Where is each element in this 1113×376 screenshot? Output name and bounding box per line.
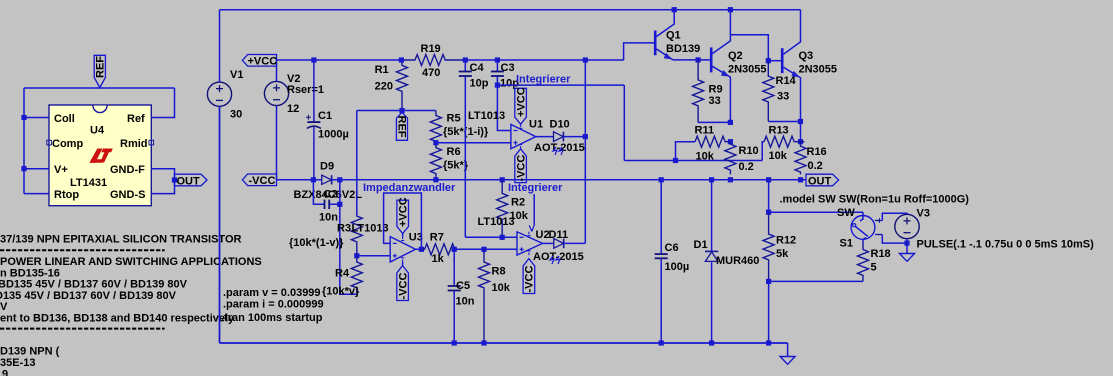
U4 pin square Comp bbox=[47, 140, 52, 145]
wire GND-F pin bbox=[151, 169, 174, 194]
svg-text:5: 5 bbox=[871, 261, 877, 273]
flag -VCC at U3 bbox=[397, 266, 410, 301]
svg-text:0.2: 0.2 bbox=[808, 160, 823, 172]
svg-text:POWER LINEAR AND SWITCHING APP: POWER LINEAR AND SWITCHING APPLICATIONS bbox=[0, 256, 262, 268]
junction R8 bottom rail bbox=[481, 340, 486, 345]
wire R5R6 junction to U1 plus input bbox=[436, 142, 511, 144]
resistor R4 bbox=[351, 256, 362, 294]
svg-text:V3: V3 bbox=[917, 208, 930, 220]
wire R12 from rail bbox=[768, 180, 770, 212]
resistor R13 bbox=[764, 136, 804, 147]
svg-text:C4: C4 bbox=[470, 62, 485, 74]
junction R12 bottom rail bbox=[766, 340, 771, 345]
resistor R18 bbox=[858, 243, 869, 281]
flag REF above U4 bbox=[94, 55, 106, 87]
junction Q1 collector rail bbox=[672, 7, 677, 12]
svg-text:R14: R14 bbox=[776, 75, 797, 87]
svg-text:.model SW SW(Ron=1u Roff=1000G: .model SW SW(Ron=1u Roff=1000G) bbox=[780, 193, 970, 205]
wire feedback down bbox=[623, 85, 625, 160]
svg-text:+VCC: +VCC bbox=[248, 56, 278, 68]
wire top rail bbox=[220, 9, 801, 11]
junction C5 top bbox=[452, 247, 457, 252]
svg-text:BD135 45V / BD137 60V / BD139: BD135 45V / BD137 60V / BD139 80V bbox=[0, 279, 188, 291]
svg-text:Integrierer: Integrierer bbox=[516, 74, 571, 86]
svg-text:R3: R3 bbox=[337, 223, 351, 235]
svg-text:R7: R7 bbox=[430, 231, 444, 243]
svg-text:Integrierer: Integrierer bbox=[508, 182, 563, 194]
wire C2 junction down to R4 return bbox=[340, 204, 357, 294]
wire V1 top to rail bbox=[219, 10, 221, 82]
svg-text:D11: D11 bbox=[549, 229, 569, 241]
svg-text:{10k*(1-v)}: {10k*(1-v)} bbox=[289, 237, 344, 249]
wire Q1 base feed bbox=[624, 43, 654, 60]
svg-text:V1: V1 bbox=[230, 69, 243, 81]
svg-text:220: 220 bbox=[375, 80, 393, 92]
svg-text:R13: R13 bbox=[769, 124, 789, 136]
flag +VCC at U3 bbox=[397, 197, 410, 233]
svg-text:470: 470 bbox=[422, 67, 440, 79]
IC U4 LT1431 body bbox=[49, 105, 151, 206]
wire SW node to S1 bbox=[769, 211, 863, 213]
svg-text:2N3055: 2N3055 bbox=[799, 63, 838, 75]
svg-text:D139 NPN (: D139 NPN ( bbox=[0, 346, 60, 358]
svg-text:9: 9 bbox=[2, 369, 8, 376]
capacitor C2 bbox=[325, 200, 330, 209]
svg-text:C3: C3 bbox=[501, 62, 515, 74]
D11 model squiggle bbox=[550, 256, 560, 264]
svg-text:R4: R4 bbox=[335, 268, 350, 280]
svg-text:LT1013: LT1013 bbox=[478, 216, 515, 228]
wire REF node horizontal bbox=[357, 110, 436, 112]
wire bottom rail overlay bbox=[220, 342, 788, 344]
svg-text:-VCC: -VCC bbox=[249, 175, 276, 187]
resistor R11 bbox=[695, 136, 730, 147]
svg-text:Rmid: Rmid bbox=[120, 138, 148, 150]
svg-text:U2: U2 bbox=[536, 229, 550, 241]
svg-text:Q2: Q2 bbox=[728, 50, 743, 62]
junction Q1 emitter R9 Q2 base bbox=[696, 57, 701, 62]
svg-text:GND-F: GND-F bbox=[110, 164, 145, 176]
flag -VCC at U1 bbox=[515, 149, 528, 183]
wire V1 vertical overlay bbox=[219, 106, 221, 343]
junction U4 Coll bbox=[21, 115, 26, 120]
flag OUT right bbox=[801, 174, 839, 187]
junction R12 top rail bbox=[766, 177, 771, 182]
U4 pin square Rmid bbox=[149, 140, 154, 145]
svg-text:PULSE(.1 -.1 0.75u 0 0 5mS 10m: PULSE(.1 -.1 0.75u 0 0 5mS 10mS) bbox=[917, 239, 1095, 251]
svg-text:Rtop: Rtop bbox=[54, 189, 79, 201]
svg-text:35E-13: 35E-13 bbox=[0, 357, 35, 369]
wire output rail left bbox=[277, 179, 314, 181]
transistor Q3 bbox=[782, 10, 800, 122]
svg-text:Impedanzwandler: Impedanzwandler bbox=[363, 182, 456, 194]
svg-text:-VCC: -VCC bbox=[524, 266, 536, 293]
flag REF at R1 bbox=[396, 112, 408, 140]
svg-text:OUT: OUT bbox=[808, 175, 832, 187]
wire V1 bottom long vertical bbox=[219, 106, 221, 343]
junction D9 cathode bbox=[337, 177, 342, 182]
junction OUT flag U4 bbox=[172, 177, 177, 182]
junction feedback R11 bbox=[673, 158, 678, 163]
svg-text:-VCC: -VCC bbox=[515, 155, 527, 182]
svg-text:R9: R9 bbox=[709, 83, 723, 95]
resistor R9 bbox=[693, 60, 704, 123]
wire R13 left corner bbox=[762, 142, 764, 161]
flag OUT at U4 bbox=[175, 174, 208, 187]
wire V3 bottom bbox=[906, 239, 908, 243]
svg-text:1000µ: 1000µ bbox=[318, 128, 349, 140]
svg-text:R5: R5 bbox=[447, 113, 461, 125]
diode D10 bbox=[554, 132, 586, 142]
wire R14 bottom to Q3 emitter line bbox=[768, 121, 800, 123]
wire C4 line to U2 input bbox=[465, 236, 517, 238]
junction R11 R10 bbox=[728, 139, 733, 144]
wire U3 power top stub bbox=[402, 234, 404, 237]
svg-text:U1: U1 bbox=[529, 119, 543, 131]
junction U2 minus input bbox=[500, 235, 505, 240]
svg-text:.tran 100ms startup: .tran 100ms startup bbox=[221, 312, 323, 324]
wire Rtop pin bbox=[24, 193, 49, 195]
capacitor C1 bbox=[306, 60, 321, 180]
junction C3 bottom feedback node bbox=[495, 83, 500, 88]
text block dashed line 2 bbox=[0, 328, 165, 330]
svg-text:C5: C5 bbox=[456, 280, 470, 292]
wire Q3 base bbox=[768, 60, 782, 62]
wire V2 top to +VCC bbox=[276, 60, 278, 81]
wire feedback top horizontal bbox=[497, 84, 624, 86]
wire bottom rail bbox=[220, 342, 788, 344]
wire C2 left branch bbox=[313, 180, 324, 205]
ground V3 bbox=[900, 243, 915, 261]
svg-text:5k: 5k bbox=[776, 248, 789, 260]
svg-text:R8: R8 bbox=[492, 266, 506, 278]
ground main bbox=[780, 343, 795, 364]
svg-text:C1: C1 bbox=[318, 110, 332, 122]
resistor R1 bbox=[397, 60, 408, 111]
resistor R5 bbox=[430, 111, 441, 143]
svg-text:D9: D9 bbox=[320, 160, 334, 172]
svg-text:R19: R19 bbox=[421, 43, 441, 55]
junction R6 bottom bbox=[433, 177, 438, 182]
junction Q3 base R14 bbox=[766, 58, 771, 63]
svg-text:LT1013: LT1013 bbox=[468, 110, 505, 122]
svg-text:30: 30 bbox=[230, 109, 242, 121]
wire U1 output bbox=[536, 136, 554, 138]
svg-text:D10: D10 bbox=[550, 118, 570, 130]
junction D1 top bbox=[709, 177, 714, 182]
svg-text:R18: R18 bbox=[871, 248, 891, 260]
wire S1 control bottom to V3 bbox=[882, 235, 907, 244]
wire R9 bottom to R10 top bbox=[698, 121, 730, 123]
svg-text:D135 45V / BD137 60V / BD139 8: D135 45V / BD137 60V / BD139 80V bbox=[0, 290, 177, 302]
resistor R2 bbox=[497, 180, 508, 237]
junction D10 output bbox=[583, 134, 588, 139]
wire Q1 emitter to node bbox=[673, 59, 711, 61]
diode D11 bbox=[554, 239, 586, 249]
svg-text:Ref: Ref bbox=[127, 113, 145, 125]
svg-text:ent to BD136, BD138 and BD140: ent to BD136, BD138 and BD140 respective… bbox=[0, 312, 235, 324]
wire C2 right branch bbox=[329, 180, 339, 205]
resistor R6 bbox=[430, 143, 441, 180]
wire U3 power bottom stub bbox=[402, 262, 404, 266]
junction R12 SW node bbox=[766, 210, 771, 215]
resistor R19 bbox=[401, 55, 466, 66]
junction C1 top bbox=[311, 57, 316, 62]
wire U4 top bbox=[24, 87, 175, 89]
wire V+ pin bbox=[24, 168, 49, 170]
D10 model squiggle bbox=[553, 147, 563, 155]
svg-text:.param v = 0.03999: .param v = 0.03999 bbox=[223, 287, 321, 299]
svg-text:V+: V+ bbox=[54, 164, 68, 176]
svg-text:BD139: BD139 bbox=[666, 43, 700, 55]
transistor Q1 bbox=[655, 10, 674, 60]
svg-text:BD137/139 NPN EPITAXIAL SILICO: BD137/139 NPN EPITAXIAL SILICON TRANSIST… bbox=[0, 234, 242, 246]
diode D1 bbox=[705, 180, 718, 343]
junction R12 R18 return bbox=[766, 279, 771, 284]
svg-text:-VCC: -VCC bbox=[397, 273, 409, 300]
resistor R7 bbox=[421, 244, 484, 255]
svg-text:R16: R16 bbox=[807, 146, 827, 158]
junction R9 R10 Q2 emitter bbox=[728, 120, 733, 125]
svg-text:GND-S: GND-S bbox=[110, 189, 145, 201]
wire C3 bottom to U1 minus input bbox=[497, 85, 511, 130]
svg-text:D1: D1 bbox=[694, 239, 708, 251]
junction C6 top bbox=[659, 177, 664, 182]
svg-text:2N3055: 2N3055 bbox=[728, 63, 767, 75]
svg-text:.param i = 0.000999: .param i = 0.000999 bbox=[223, 299, 324, 311]
svg-text:U4: U4 bbox=[90, 125, 105, 137]
junction R3 R4 bbox=[354, 253, 359, 258]
svg-text:33: 33 bbox=[777, 91, 789, 103]
svg-text:n BD135-16: n BD135-16 bbox=[0, 267, 60, 279]
voltage source V3 bbox=[895, 214, 919, 238]
svg-text:V: V bbox=[0, 301, 8, 313]
wire U2 power top bbox=[529, 194, 534, 231]
wire R7 node to U2 plus input bbox=[454, 248, 517, 250]
svg-text:AOT-2015: AOT-2015 bbox=[534, 142, 585, 154]
wire REF node down left bbox=[356, 111, 358, 180]
svg-text:10n: 10n bbox=[456, 295, 475, 307]
svg-text:Comp: Comp bbox=[52, 138, 83, 150]
svg-text:C2: C2 bbox=[324, 189, 338, 201]
junction R1 top bbox=[399, 57, 404, 62]
svg-text:R2: R2 bbox=[511, 197, 525, 209]
junction C4 top bbox=[463, 57, 468, 62]
svg-text:10k: 10k bbox=[696, 150, 715, 162]
resistor R16 bbox=[795, 142, 806, 175]
op-amp U2 bbox=[517, 232, 543, 255]
wire S1 control top to V3 bbox=[882, 213, 907, 220]
junction U4 V+ bbox=[21, 166, 26, 171]
junction R8 top bbox=[481, 247, 486, 252]
flag +VCC at U1 bbox=[515, 87, 528, 124]
junction U3 output bbox=[419, 247, 424, 252]
resistor R10 bbox=[725, 142, 736, 175]
svg-text:12: 12 bbox=[287, 103, 299, 115]
wire D10 node vertical bbox=[584, 60, 586, 243]
op-amp U1 bbox=[511, 124, 536, 148]
resistor R8 bbox=[479, 249, 490, 342]
svg-text:Rser=1: Rser=1 bbox=[287, 84, 324, 96]
svg-text:SW: SW bbox=[837, 207, 855, 219]
svg-text:R6: R6 bbox=[447, 146, 461, 158]
wire Coll pin bbox=[24, 117, 49, 119]
svg-text:Q1: Q1 bbox=[666, 29, 681, 41]
junction R13 R16 bbox=[798, 139, 803, 144]
flag -VCC at U2 bbox=[523, 259, 536, 294]
junction rail x585 bbox=[583, 57, 588, 62]
diode D9 bbox=[313, 175, 339, 184]
voltage source V2 bbox=[264, 81, 288, 105]
resistor R14 bbox=[763, 61, 774, 122]
svg-text:{10k*v}: {10k*v} bbox=[322, 286, 360, 298]
capacitor C5 bbox=[448, 249, 461, 343]
wire feedback lower horizontal bbox=[624, 160, 762, 162]
wire rail C4 to C3 bbox=[465, 59, 497, 61]
svg-text:10k: 10k bbox=[492, 282, 511, 294]
resistor R12 bbox=[763, 212, 774, 281]
svg-text:+VCC: +VCC bbox=[398, 197, 410, 227]
junction D1 bottom rail bbox=[709, 340, 714, 345]
voltage source V1 bbox=[207, 82, 231, 106]
svg-text:R11: R11 bbox=[695, 124, 715, 136]
capacitor C3 bbox=[491, 60, 504, 85]
switch S1 bbox=[851, 212, 882, 243]
svg-text:1k: 1k bbox=[432, 253, 445, 265]
wire R12 to bottom rail bbox=[768, 281, 770, 343]
svg-text:S1: S1 bbox=[840, 238, 853, 250]
junction C2 right bbox=[337, 202, 342, 207]
svg-text:Coll: Coll bbox=[54, 113, 75, 125]
wire R3R4 junction to U3 plus input bbox=[357, 255, 390, 257]
wire V2 bottom to -VCC bbox=[276, 106, 278, 180]
svg-text:R1: R1 bbox=[375, 64, 389, 76]
capacitor C6 bbox=[655, 180, 668, 343]
junction R5 R6 bbox=[433, 140, 438, 145]
junction REF node bbox=[399, 108, 404, 113]
wire output rail middle bbox=[340, 179, 801, 181]
junction D9 anode bbox=[311, 177, 316, 182]
wire U4 left vertical bbox=[23, 88, 25, 194]
wire Q3 emitter to R16 bbox=[800, 122, 802, 142]
junction C5 bottom rail bbox=[452, 340, 457, 345]
wire Ref pin bbox=[151, 88, 174, 118]
svg-text:OUT: OUT bbox=[177, 175, 201, 187]
svg-text:33: 33 bbox=[709, 95, 721, 107]
svg-text:R12: R12 bbox=[776, 234, 796, 246]
junction Q2 collector rail bbox=[728, 7, 733, 12]
svg-text:REF: REF bbox=[396, 116, 408, 138]
wire REF node crossing to R3 bbox=[356, 180, 358, 215]
flag -VCC at V2 bbox=[242, 174, 276, 187]
svg-text:REF: REF bbox=[95, 56, 107, 78]
svg-text:+VCC: +VCC bbox=[515, 87, 527, 117]
junction R16 bottom OUT bbox=[798, 177, 803, 182]
U4 LT logo bbox=[90, 149, 113, 163]
junction R14 Q3 emitter bbox=[798, 119, 803, 124]
svg-text:C6: C6 bbox=[665, 242, 679, 254]
flag +VCC at V2 bbox=[242, 55, 277, 68]
wire Q2 collector to Q3 base bbox=[730, 35, 768, 61]
resistor R3 bbox=[351, 215, 362, 256]
junction C6 bottom rail bbox=[659, 340, 664, 345]
wire R18 bottom return bbox=[769, 280, 863, 282]
wire U3 output bbox=[416, 248, 422, 250]
svg-text:0.2: 0.2 bbox=[739, 161, 754, 173]
svg-text:MUR460: MUR460 bbox=[716, 255, 759, 267]
text block dashed line 1 bbox=[0, 249, 165, 251]
junction R10 bottom rail bbox=[728, 177, 733, 182]
wire +VCC rail bbox=[277, 59, 402, 61]
transistor Q2 bbox=[711, 10, 730, 123]
svg-text:100µ: 100µ bbox=[665, 261, 690, 273]
svg-text:10n: 10n bbox=[319, 212, 338, 224]
wire U3 feedback loop bbox=[384, 193, 422, 249]
svg-text:LT1431: LT1431 bbox=[70, 177, 107, 189]
junction R2 top bbox=[500, 177, 505, 182]
wire R11 left corner bbox=[676, 142, 696, 161]
junction V3 ground bbox=[904, 241, 909, 246]
capacitor C4 bbox=[459, 60, 472, 237]
svg-text:10k: 10k bbox=[769, 150, 788, 162]
svg-text:10p: 10p bbox=[470, 77, 489, 89]
wire rail C3 right bbox=[497, 59, 623, 61]
junction C3 top bbox=[495, 57, 500, 62]
svg-text:R10: R10 bbox=[739, 145, 759, 157]
wire U2 output bbox=[543, 242, 554, 244]
op-amp U3 bbox=[390, 237, 415, 262]
svg-text:Q3: Q3 bbox=[799, 50, 814, 62]
